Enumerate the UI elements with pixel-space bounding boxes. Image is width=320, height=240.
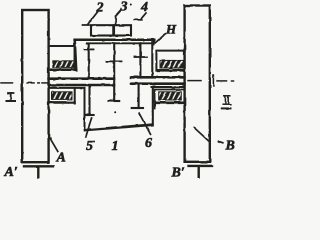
svg-text:B′: B′ [171,166,185,181]
svg-text:A: A [56,151,66,166]
bearing pedestal lower-left [50,87,85,89]
leader for label A [50,139,58,152]
bearing pedestal lower-right [152,86,185,88]
friction wheel A [22,10,48,162]
hatch block upper-left [53,61,74,68]
support under wheel A [24,166,53,177]
carrier H bottom plate [85,125,153,130]
gear 1 bottom cap [109,100,120,102]
bearing pedestal upper-right [156,51,184,71]
carrier H top plate [75,39,155,42]
leader for label 5 [86,118,92,137]
svg-text:4: 4 [140,0,148,15]
carrier H right wall lower [152,87,154,124]
carrier plate right hook [152,40,155,45]
gear shaft line left (gear 2/5 axis) [88,45,90,78]
shaft I centerline [1,77,49,89]
carrier H left wall [74,40,76,71]
leader for label H [155,34,165,43]
tooth mark right [134,56,147,58]
shaft II body (two bars) [131,76,184,79]
shaft I body (two bars) [49,77,114,80]
svg-text:A′: A′ [4,165,18,180]
bearing pedestal upper-left [50,45,76,47]
carrier H inner top line [87,42,153,44]
leader for label 4 [134,13,146,20]
leader for label 2 [83,12,98,25]
carrier H right wall upper [151,40,153,77]
tooth mark center [107,60,122,62]
gear 6 axis lower-right [138,85,140,108]
gear 2 block (top left rect) [91,25,113,35]
svg-text:B: B [225,139,235,154]
shaft label II glyph [222,96,231,109]
svg-text:3: 3 [120,0,128,15]
shaft label I glyph [7,93,16,101]
svg-text:1: 1 [112,139,119,154]
carrier H left wall lower step [84,115,86,130]
hatch block lower-right [159,92,182,100]
svg-text:2: 2 [96,1,104,16]
gear 5 axis lower-left [88,86,90,115]
hatch block lower-left [52,92,73,100]
svg-text:H: H [165,22,177,37]
hatch block upper-right [160,60,183,68]
svg-text:6: 6 [145,136,152,151]
leader for label 3 [116,10,122,25]
gear 6 bottom cap [131,107,143,109]
svg-text:5: 5 [86,139,93,154]
tooth mark left [85,48,94,50]
dot on gear 1 axis [114,111,116,113]
gear shaft line center (gear 1 axis) [113,43,115,101]
friction wheel B [185,6,210,162]
support under wheel B [189,166,213,177]
leader for label B [194,128,210,143]
gear 3 block (top right rect) [114,25,131,35]
shaft II centerline [188,75,234,86]
leader for label 6 [139,113,151,134]
gear shaft line right (gear 4/6 axis) [139,43,141,76]
gear 5 bottom cap [86,114,94,116]
